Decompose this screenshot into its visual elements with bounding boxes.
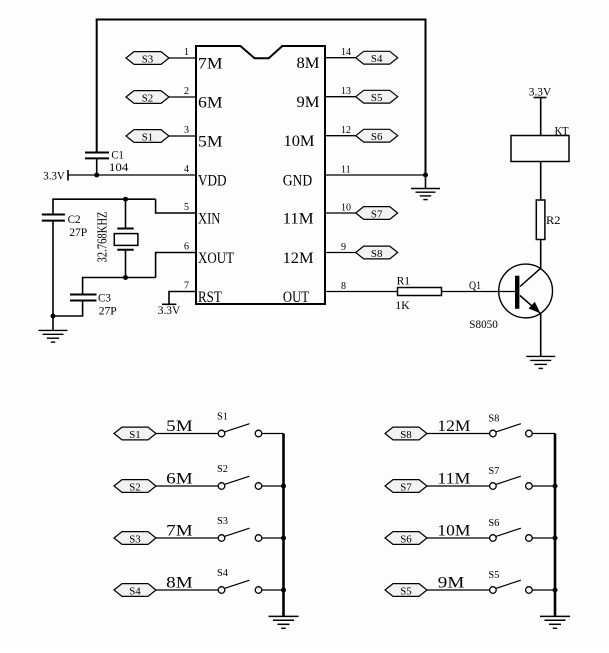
wire IC to tag S5 [325, 96, 356, 98]
wire XIN pin 5 [156, 199, 196, 213]
relay coil KT [511, 136, 569, 162]
transistor Q1 S8050 [499, 264, 553, 318]
wire tag S2 to IC [169, 96, 196, 98]
junction bus row 4 [553, 588, 558, 593]
svg-text:13: 13 [341, 86, 351, 97]
resistor R1 [398, 288, 442, 296]
switch S7 [488, 465, 532, 489]
wire ground bus vertical [282, 434, 285, 617]
svg-text:3.3V: 3.3V [158, 303, 181, 317]
wire S4 to switch S4 [156, 589, 218, 591]
node S7 net tag [385, 480, 427, 494]
wire switch S2 to bus [262, 485, 284, 487]
svg-text:3.3V: 3.3V [43, 169, 65, 183]
svg-text:27P: 27P [69, 225, 87, 239]
resistor R2 [536, 200, 545, 240]
svg-text:12M: 12M [283, 250, 314, 267]
svg-text:5M: 5M [198, 133, 223, 150]
junction bus row 2 [553, 484, 558, 489]
svg-text:S6: S6 [400, 535, 412, 546]
wire IC to tag S8 [325, 252, 356, 254]
wire S8 to switch S8 [427, 433, 490, 435]
wire Q1 collector to R2 [540, 240, 542, 269]
svg-text:VDD: VDD [198, 172, 227, 189]
svg-text:14: 14 [341, 47, 351, 58]
wire VDD rail: left vertical from C1 to top [96, 20, 98, 153]
ground GND (crystal) [39, 330, 68, 342]
svg-text:12: 12 [341, 125, 351, 136]
wire tag S3 to IC [169, 57, 196, 59]
svg-text:1: 1 [184, 47, 189, 58]
node S1 net tag [126, 130, 169, 144]
svg-text:S3: S3 [129, 535, 141, 546]
svg-text:4: 4 [184, 164, 189, 175]
svg-text:Q1: Q1 [469, 278, 481, 292]
svg-text:S1: S1 [142, 133, 154, 144]
node S5 net tag [356, 90, 398, 104]
svg-text:S5: S5 [371, 93, 383, 104]
wire C3 down to junction [53, 301, 83, 317]
svg-text:10M: 10M [437, 522, 470, 539]
power port 3.3V (VDD) [43, 169, 68, 183]
svg-text:8: 8 [341, 281, 346, 292]
wire switch S5 to bus [532, 589, 555, 591]
svg-text:104: 104 [109, 160, 129, 174]
ground GND (switch bank) [540, 616, 570, 628]
switch S5 [488, 569, 532, 593]
node S3 net tag [126, 52, 169, 66]
junction crystal top [123, 197, 128, 202]
capacitor C2 [42, 215, 65, 221]
svg-text:11: 11 [341, 164, 351, 175]
wire crystal top rail [53, 199, 156, 214]
svg-text:7: 7 [184, 281, 189, 292]
wire Q1 emitter to ground [540, 314, 542, 357]
junction GND rail [423, 173, 428, 178]
svg-text:11M: 11M [437, 470, 470, 487]
svg-text:9: 9 [341, 242, 346, 253]
svg-text:S7: S7 [371, 210, 383, 221]
svg-text:S8: S8 [400, 430, 412, 441]
svg-text:R1: R1 [397, 274, 411, 288]
wire 3.3V to pin 4 [68, 174, 196, 176]
wire C2 down [52, 221, 54, 331]
svg-text:S8050: S8050 [469, 317, 498, 331]
wire VDD top rail horizontal [96, 19, 427, 21]
IC U1 body with notch [196, 46, 325, 304]
svg-text:S1: S1 [217, 411, 228, 423]
svg-text:3.3V: 3.3V [529, 85, 552, 99]
svg-text:S2: S2 [129, 483, 141, 494]
wire RST pin 7 [169, 292, 196, 305]
node S8 net tag [385, 427, 427, 441]
wire KT to 3.3V [540, 98, 542, 136]
junction crystal bottom [123, 275, 128, 280]
svg-text:S4: S4 [371, 54, 383, 65]
svg-text:S7: S7 [488, 465, 499, 477]
svg-text:9M: 9M [438, 574, 465, 591]
svg-text:S6: S6 [488, 517, 499, 529]
svg-text:XIN: XIN [198, 210, 221, 227]
svg-text:S1: S1 [129, 430, 141, 441]
svg-text:6M: 6M [166, 470, 193, 487]
wire ground bus vertical [554, 434, 557, 617]
switch S8 [488, 413, 532, 437]
junction C2/C3 [51, 314, 56, 319]
svg-text:S3: S3 [142, 55, 154, 66]
svg-text:S8: S8 [488, 413, 499, 425]
svg-text:8M: 8M [297, 55, 320, 72]
svg-text:S6: S6 [371, 132, 383, 143]
switch S6 [488, 517, 532, 541]
node S4 net tag [114, 584, 156, 598]
svg-text:OUT: OUT [283, 289, 309, 306]
switch S2 [217, 463, 262, 489]
junction bus row 3 [553, 536, 558, 541]
svg-text:32.768KHZ: 32.768KHZ [96, 212, 111, 263]
svg-text:2: 2 [184, 86, 189, 97]
wire switch S7 to bus [532, 485, 555, 487]
wire crystal top stub [125, 199, 127, 228]
svg-text:S7: S7 [400, 483, 412, 494]
node S3 net tag [114, 532, 156, 546]
node S6 net tag [356, 129, 398, 143]
wire right rail down to GND net [425, 20, 427, 176]
svg-text:S5: S5 [400, 587, 412, 598]
svg-text:GND: GND [283, 172, 313, 189]
wire R1 to Q1 base [442, 291, 516, 293]
svg-text:27P: 27P [99, 303, 117, 317]
wire switch S8 to bus [532, 433, 555, 435]
svg-text:S8: S8 [371, 249, 383, 260]
svg-text:5M: 5M [166, 418, 193, 435]
node S2 net tag [114, 480, 156, 494]
wire OUT pin 8 to R1 [325, 291, 398, 293]
svg-text:12M: 12M [437, 418, 470, 435]
wire S1 to switch S1 [156, 433, 218, 435]
wire switch S6 to bus [532, 537, 555, 539]
svg-text:10M: 10M [284, 133, 315, 150]
node S8 net tag [356, 246, 398, 260]
node S1 net tag [114, 427, 156, 441]
svg-text:9M: 9M [297, 94, 320, 111]
node S4 net tag [356, 51, 398, 65]
svg-text:5: 5 [184, 202, 189, 213]
wire switch S1 to bus [262, 433, 284, 435]
svg-text:S5: S5 [488, 569, 499, 581]
junction VDD/C1 [94, 173, 99, 178]
wire IC to tag S7 [325, 212, 356, 214]
node S6 net tag [385, 532, 427, 546]
crystal Y1 32.768KHZ [114, 229, 138, 250]
svg-text:8M: 8M [166, 574, 193, 591]
node S7 net tag [356, 207, 398, 221]
svg-text:S2: S2 [142, 94, 154, 105]
wire S3 to switch S3 [156, 537, 218, 539]
svg-text:KT: KT [555, 123, 570, 137]
switch S3 [217, 515, 262, 541]
svg-text:S2: S2 [217, 463, 228, 475]
svg-text:3: 3 [184, 125, 189, 136]
junction bus row 3 [281, 536, 286, 541]
junction bus row 4 [281, 588, 286, 593]
wire C1 bottom to VDD line [96, 158, 98, 175]
svg-text:11M: 11M [283, 210, 314, 227]
wire crystal bottom rail [83, 278, 156, 295]
wire XOUT pin 6 [156, 253, 196, 278]
wire S2 to switch S2 [156, 485, 218, 487]
switch S4 [217, 567, 262, 593]
ground GND (switch bank) [269, 616, 299, 628]
svg-text:6M: 6M [198, 94, 223, 111]
svg-text:7M: 7M [166, 522, 193, 539]
capacitor C3 [70, 295, 97, 301]
svg-text:S3: S3 [217, 515, 228, 527]
svg-text:RST: RST [198, 289, 222, 306]
wire S7 to switch S7 [427, 485, 490, 487]
wire crystal bottom stub [125, 250, 127, 278]
node S5 net tag [385, 584, 427, 598]
wire switch S3 to bus [262, 537, 284, 539]
svg-text:S4: S4 [217, 567, 228, 579]
wire tag S1 to IC [169, 135, 196, 137]
svg-text:1K: 1K [395, 298, 410, 312]
ground GND (Q1 emitter) [526, 356, 555, 368]
svg-text:S4: S4 [129, 587, 141, 598]
wire S5 to switch S5 [427, 589, 490, 591]
wire IC to tag S6 [325, 135, 356, 137]
power port 3.3V (KT) [529, 85, 552, 99]
wire ground stub [425, 175, 427, 189]
wire GND pin 11 to ground [325, 174, 426, 176]
wire switch S4 to bus [262, 589, 284, 591]
svg-text:10: 10 [341, 202, 351, 213]
capacitor C1 [85, 153, 109, 159]
svg-text:7M: 7M [198, 55, 223, 72]
switch S1 [217, 411, 262, 437]
wire IC to tag S4 [325, 57, 356, 59]
svg-text:XOUT: XOUT [198, 250, 234, 267]
svg-text:6: 6 [184, 242, 189, 253]
power port 3.3V (RST) [158, 303, 181, 317]
wire S6 to switch S6 [427, 537, 490, 539]
wire R2 to KT [540, 162, 542, 201]
ground GND (pin 11) [411, 189, 440, 200]
junction bus row 2 [281, 484, 286, 489]
node S2 net tag [126, 91, 169, 105]
svg-text:R2: R2 [546, 213, 561, 227]
